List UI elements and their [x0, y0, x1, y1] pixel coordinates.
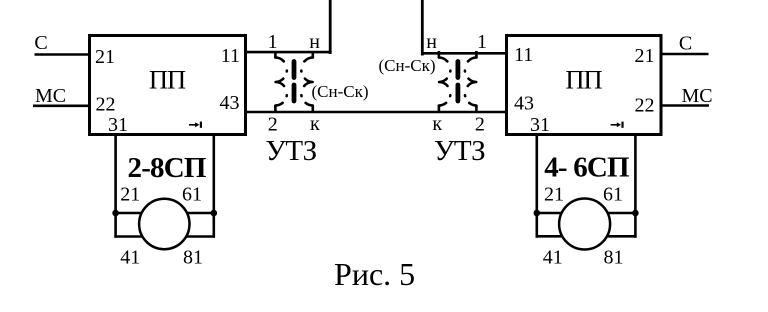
transformer T1 УТЗ: [275, 51, 312, 113]
pin 41 label of M2: [543, 247, 563, 269]
contact arrow symbol of U1: [189, 122, 202, 128]
wire lower link to motor M2: [536, 235, 637, 238]
value label (Сн-Ск) of T1: [312, 82, 369, 101]
pin н tail of T2: [438, 51, 441, 58]
secondary winding of T2: [439, 58, 451, 106]
primary winding of T1: [275, 58, 287, 106]
pin к label of T1: [310, 113, 320, 135]
wire C (right input): [660, 53, 709, 56]
svg-text:21: 21: [95, 46, 115, 68]
pin 21 of U2: [635, 45, 655, 67]
pin 2 label of T2: [475, 114, 485, 136]
svg-text:41: 41: [543, 247, 563, 269]
svg-text:61: 61: [603, 183, 623, 205]
name УТЗ of T2: [434, 135, 485, 167]
node C label (right): [679, 33, 692, 55]
pin 22 of U1: [96, 94, 116, 116]
node МС label (right): [682, 85, 713, 107]
svg-text:(Сн-Ск): (Сн-Ск): [379, 56, 436, 75]
pin 2 tail of T1: [274, 106, 277, 114]
pin 61 label of M2: [603, 183, 623, 205]
junction dot left (M2): [534, 210, 541, 217]
wire upper link to motor M1: [116, 212, 214, 215]
pin 21 of U1: [95, 46, 115, 68]
value label (Сн-Ск) of T2: [379, 56, 436, 75]
svg-text:4- 6СП: 4- 6СП: [544, 151, 629, 183]
pin к label of T2: [432, 113, 442, 135]
svg-text:21: 21: [635, 45, 655, 67]
svg-text:21: 21: [544, 183, 564, 205]
junction dot right (M2): [632, 210, 639, 217]
pin 22 of U2: [635, 95, 655, 117]
svg-text:к: к: [432, 113, 442, 135]
svg-text:1: 1: [477, 31, 487, 53]
motor M2 (switch machine): [559, 199, 610, 250]
svg-text:1: 1: [268, 31, 278, 53]
wire U1 pin31 down (left branch): [114, 134, 117, 238]
wire bottom rail 43-43: [245, 111, 507, 114]
core of T1: [292, 62, 297, 78]
motor M1 (switch machine): [139, 199, 189, 249]
pin 21 label of M2: [544, 183, 564, 205]
pin 61 label of M1: [182, 183, 202, 205]
pin 1 label of T2: [477, 31, 487, 53]
pin к tail of T1: [311, 106, 314, 114]
svg-text:(Сн-Ск): (Сн-Ск): [312, 82, 369, 101]
block U1 ПП (left receiver): [90, 36, 246, 135]
pin 1 tail of T2: [475, 51, 478, 58]
name УТЗ of T1: [265, 135, 316, 167]
svg-text:МС: МС: [682, 85, 713, 107]
svg-text:21: 21: [120, 183, 140, 205]
wire to rail track (up, right): [421, 0, 424, 56]
primary winding of T2: [465, 58, 477, 106]
wire C (left input): [35, 53, 91, 56]
pin 31 of U1: [108, 114, 128, 136]
svg-text:н: н: [309, 31, 320, 53]
core of T2: [455, 62, 460, 78]
svg-text:61: 61: [182, 183, 202, 205]
wire МС (right input): [660, 104, 709, 107]
wire U2 arrow pin down (right branch): [634, 134, 637, 238]
svg-text:41: 41: [120, 247, 140, 269]
svg-text:22: 22: [635, 95, 655, 117]
wire МС (left input): [33, 105, 90, 108]
node МС label (left): [35, 85, 66, 107]
transformer T2 УТЗ: [439, 51, 477, 113]
svg-text:31: 31: [108, 114, 128, 136]
svg-text:11: 11: [221, 45, 240, 67]
svg-text:ПП: ПП: [565, 65, 602, 95]
pin к tail of T2: [438, 106, 441, 114]
name 2-8СП of M1: [128, 152, 206, 184]
wire U2 pin31 down (left branch): [535, 134, 538, 238]
pin н tail of T1: [311, 51, 314, 58]
svg-text:2: 2: [475, 114, 485, 136]
wire U1 arrow pin down (right branch): [213, 134, 216, 238]
wire pin11 rail (U1 to T1): [245, 51, 332, 54]
svg-text:к: к: [310, 113, 320, 135]
svg-text:ПП: ПП: [149, 65, 186, 95]
secondary winding of T1: [301, 58, 313, 106]
caption Рис. 5: [334, 256, 415, 292]
svg-text:2-8СП: 2-8СП: [128, 152, 206, 184]
name 4- 6СП of M2: [544, 151, 629, 183]
svg-text:43: 43: [514, 93, 534, 115]
pin 81 label of M2: [604, 247, 624, 269]
pin 2 tail of T2: [475, 106, 478, 114]
junction dot left (M1): [112, 210, 119, 217]
svg-text:C: C: [34, 32, 47, 54]
pin н label of T1: [309, 31, 320, 53]
svg-text:11: 11: [514, 44, 533, 66]
wire pin11 rail (T2 to U2): [421, 52, 507, 55]
svg-text:81: 81: [183, 247, 203, 269]
pin 11 of U2: [514, 44, 533, 66]
svg-text:2: 2: [268, 114, 278, 136]
pin 2 label of T1: [268, 114, 278, 136]
wire lower link to motor M1: [114, 235, 215, 238]
pin н label of T2: [426, 31, 437, 53]
pin 1 label of T1: [268, 31, 278, 53]
svg-text:31: 31: [530, 114, 550, 136]
pin 41 label of M1: [120, 247, 140, 269]
wire to rail track (up, left): [329, 0, 332, 54]
pin 81 label of M1: [183, 247, 203, 269]
svg-text:Рис. 5: Рис. 5: [334, 256, 415, 292]
pin 43 of U1: [220, 92, 240, 114]
svg-text:МС: МС: [35, 85, 66, 107]
node C label (left): [34, 32, 47, 54]
svg-text:УТЗ: УТЗ: [434, 135, 485, 167]
pin 31 of U2: [530, 114, 550, 136]
svg-text:81: 81: [604, 247, 624, 269]
pin 1 tail of T1: [274, 51, 277, 58]
svg-text:н: н: [426, 31, 437, 53]
svg-text:43: 43: [220, 92, 240, 114]
block U2 ПП (right receiver): [507, 36, 662, 135]
svg-text:22: 22: [96, 94, 116, 116]
pin 43 of U2: [514, 93, 534, 115]
pin 11 of U1: [221, 45, 240, 67]
junction dot right (M1): [211, 210, 218, 217]
contact arrow symbol of U2: [611, 122, 624, 128]
wire upper link to motor M2: [537, 212, 636, 215]
svg-text:УТЗ: УТЗ: [265, 135, 316, 167]
pin 21 label of M1: [120, 183, 140, 205]
svg-text:C: C: [679, 33, 692, 55]
